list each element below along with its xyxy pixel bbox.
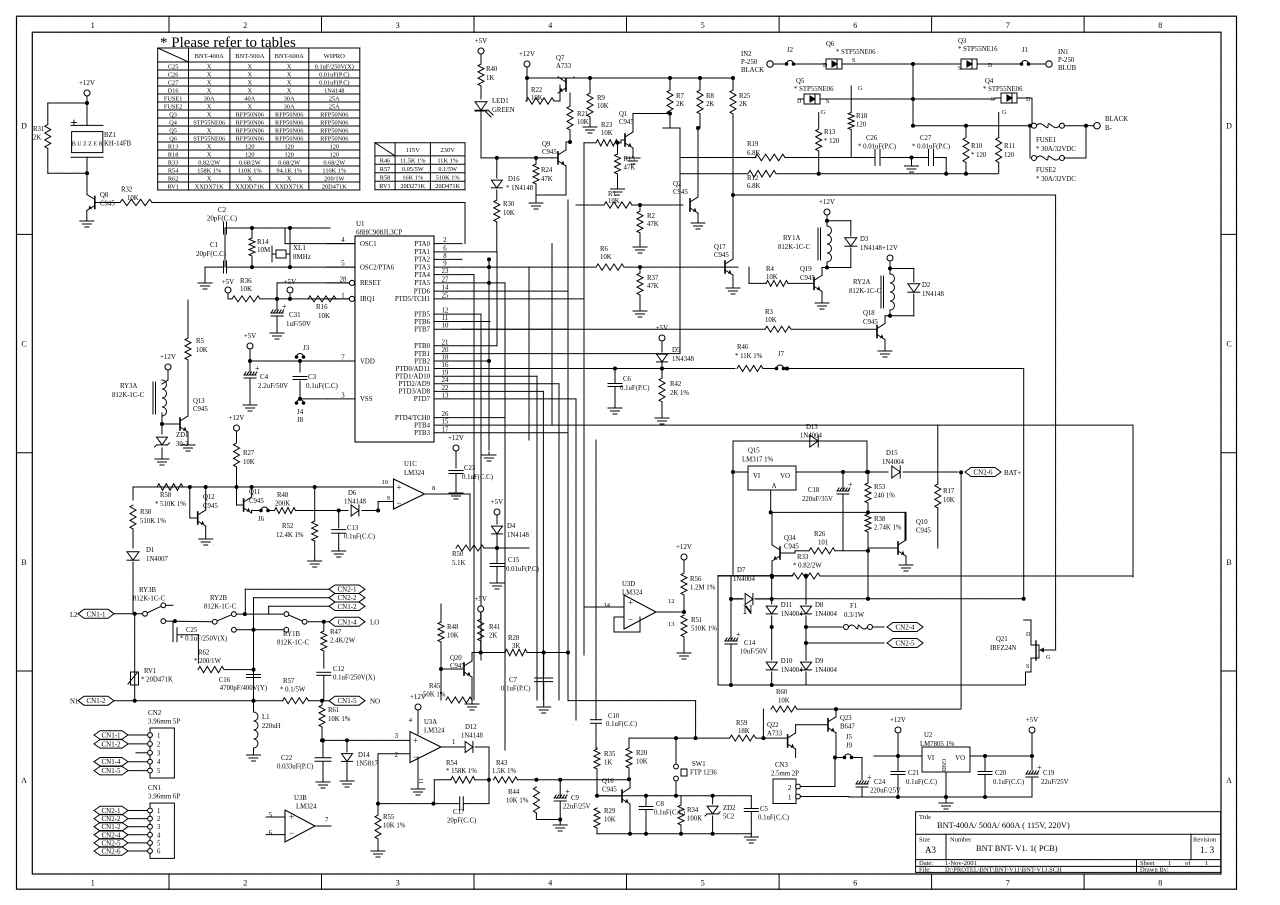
svg-text:C2: C2: [218, 206, 227, 214]
svg-text:22uF/25V: 22uF/25V: [1041, 779, 1069, 786]
svg-text:D10: D10: [781, 658, 793, 665]
svg-text:5.1K: 5.1K: [452, 560, 465, 567]
svg-text:120: 120: [1004, 152, 1015, 159]
svg-text:BNT-500A: BNT-500A: [235, 53, 265, 60]
svg-text:0.033uF(P.C): 0.033uF(P.C): [277, 764, 313, 771]
svg-text:LO: LO: [370, 619, 379, 627]
svg-text:C20: C20: [995, 770, 1007, 777]
svg-text:CN1-2: CN1-2: [101, 740, 121, 748]
svg-text:101: 101: [818, 540, 828, 547]
svg-text:PTB1: PTB1: [414, 351, 430, 358]
svg-text:R16: R16: [316, 303, 328, 311]
svg-text:10K: 10K: [636, 759, 648, 766]
svg-text:R13: R13: [824, 129, 836, 136]
svg-text:10: 10: [382, 479, 389, 486]
svg-text:U3B: U3B: [294, 795, 307, 802]
svg-text:R27: R27: [243, 450, 255, 457]
svg-text:PTD3/AD8: PTD3/AD8: [399, 389, 431, 396]
svg-text:R4: R4: [766, 266, 775, 273]
svg-text:1N4004: 1N4004: [733, 576, 756, 583]
svg-text:* 0.1uF/250V(X): * 0.1uF/250V(X): [180, 636, 227, 643]
svg-text:R55: R55: [383, 814, 395, 821]
svg-text:2: 2: [395, 752, 399, 759]
svg-text:24: 24: [442, 377, 449, 384]
svg-text:R33: R33: [797, 554, 809, 561]
svg-text:C5: C5: [760, 806, 769, 813]
svg-text:PTB0: PTB0: [414, 343, 430, 350]
svg-text:R19: R19: [747, 141, 759, 148]
svg-text:812K-1C-C: 812K-1C-C: [204, 604, 237, 611]
svg-text:C27: C27: [168, 79, 179, 86]
svg-text:J2: J2: [787, 47, 794, 54]
svg-text:1: 1: [91, 21, 95, 30]
svg-text:C21: C21: [908, 770, 919, 777]
svg-text:RFP50N06: RFP50N06: [236, 119, 264, 126]
svg-text:+12V: +12V: [882, 244, 898, 252]
svg-text:812K-1C-C: 812K-1C-C: [133, 596, 166, 603]
svg-text:5: 5: [269, 812, 273, 819]
svg-text:D: D: [21, 121, 27, 130]
svg-text:BLACK: BLACK: [1105, 116, 1128, 123]
svg-text:8: 8: [1158, 879, 1162, 888]
svg-text:19: 19: [442, 370, 449, 377]
svg-text:Q3: Q3: [169, 111, 177, 118]
svg-text:2K: 2K: [739, 101, 747, 108]
svg-text:+: +: [282, 302, 287, 311]
svg-text:18: 18: [442, 355, 449, 362]
svg-text:R14: R14: [257, 238, 269, 246]
svg-text:R8: R8: [706, 93, 715, 100]
svg-text:220uF/25V: 220uF/25V: [870, 788, 901, 795]
svg-text:4: 4: [548, 21, 552, 30]
svg-text:110K 1%: 110K 1%: [322, 167, 346, 174]
svg-text:R62: R62: [198, 650, 210, 657]
svg-text:−: −: [413, 752, 418, 762]
svg-text:94.1K 1%: 94.1K 1%: [276, 167, 302, 174]
svg-text:R61: R61: [328, 707, 339, 714]
svg-text:200/1W: 200/1W: [324, 175, 344, 182]
svg-text:2K: 2K: [706, 101, 714, 108]
svg-text:2.74K 1%: 2.74K 1%: [874, 525, 902, 532]
svg-text:X: X: [207, 151, 212, 158]
svg-text:1N4004: 1N4004: [781, 611, 804, 618]
svg-text:10K: 10K: [597, 103, 609, 110]
svg-text:200K: 200K: [275, 501, 290, 508]
svg-text:R42: R42: [670, 381, 682, 388]
svg-text:+12V: +12V: [160, 353, 176, 361]
svg-text:C6: C6: [623, 376, 632, 383]
svg-text:RV1: RV1: [144, 668, 156, 675]
svg-text:1N4348: 1N4348: [672, 356, 695, 363]
svg-text:A: A: [21, 776, 27, 785]
svg-text:RFP50N06: RFP50N06: [236, 135, 264, 142]
svg-text:D7: D7: [737, 567, 746, 574]
svg-text:GREEN: GREEN: [492, 107, 515, 114]
svg-text:1uF/50V: 1uF/50V: [286, 320, 311, 328]
svg-text:10K: 10K: [577, 119, 589, 126]
svg-text:9: 9: [387, 495, 390, 502]
svg-text:R53: R53: [874, 484, 886, 491]
svg-text:22: 22: [442, 385, 449, 392]
svg-text:CN2: CN2: [148, 709, 162, 717]
svg-text:X: X: [248, 103, 253, 110]
svg-text:0.1uF/250V(X): 0.1uF/250V(X): [333, 675, 375, 682]
svg-text:RFP50N06: RFP50N06: [275, 119, 303, 126]
svg-text:CN2-4: CN2-4: [101, 831, 121, 839]
svg-text:2K 1%: 2K 1%: [670, 390, 689, 397]
svg-text:D5: D5: [672, 347, 681, 354]
svg-text:File:: File:: [919, 867, 931, 874]
svg-text:X: X: [207, 71, 212, 78]
svg-text:PTB4: PTB4: [414, 422, 430, 429]
svg-text:Drawn By:: Drawn By:: [1140, 867, 1169, 874]
svg-text:1: 1: [1205, 860, 1208, 867]
svg-text:2K: 2K: [33, 135, 41, 142]
svg-text:A: A: [1226, 776, 1232, 785]
svg-text:120: 120: [330, 143, 339, 150]
svg-text:X: X: [207, 87, 212, 94]
svg-text:0.1/5W: 0.1/5W: [438, 166, 457, 173]
svg-text:4: 4: [157, 759, 161, 766]
svg-text:RY2A: RY2A: [853, 279, 870, 286]
svg-text:BNT-600A: BNT-600A: [274, 53, 304, 60]
svg-text:PTD5/TCH1: PTD5/TCH1: [395, 296, 430, 303]
svg-text:RFP50N06: RFP50N06: [320, 135, 348, 142]
svg-text:FUSE1: FUSE1: [164, 95, 183, 102]
svg-text:N: N: [743, 602, 753, 617]
svg-text:−: −: [628, 615, 633, 625]
svg-text:−: −: [289, 828, 294, 838]
svg-text:15: 15: [442, 419, 449, 426]
svg-text:VI: VI: [753, 473, 761, 480]
svg-text:+5V: +5V: [222, 278, 235, 286]
svg-text:J1: J1: [1022, 47, 1028, 54]
svg-text:1: 1: [91, 879, 95, 888]
svg-text:R45: R45: [429, 683, 441, 690]
svg-text:* 510K 1%: * 510K 1%: [155, 501, 186, 508]
svg-text:D6: D6: [348, 490, 357, 497]
svg-text:812K-1C-C: 812K-1C-C: [778, 244, 811, 251]
svg-text:C945: C945: [100, 201, 115, 208]
svg-text:RV1: RV1: [167, 183, 178, 190]
svg-text:SW1: SW1: [692, 761, 706, 768]
svg-text:26: 26: [442, 411, 449, 418]
svg-text:18K: 18K: [738, 728, 750, 735]
svg-text:RFP50N06: RFP50N06: [236, 111, 264, 118]
svg-text:R62: R62: [168, 175, 179, 182]
svg-text:L1: L1: [262, 714, 270, 721]
svg-text:R38: R38: [874, 516, 886, 523]
svg-text:R12: R12: [747, 175, 759, 182]
svg-text:VI: VI: [927, 755, 935, 762]
svg-text:C: C: [21, 340, 26, 349]
svg-text:D11: D11: [781, 602, 792, 609]
svg-text:Q4: Q4: [985, 78, 994, 85]
svg-text:Q10: Q10: [916, 519, 928, 526]
svg-text:C7: C7: [509, 677, 518, 684]
svg-text:RFP50N06: RFP50N06: [236, 127, 264, 134]
svg-text:+5V: +5V: [491, 498, 504, 506]
svg-text:D12: D12: [465, 724, 477, 731]
svg-text:S: S: [958, 66, 961, 72]
svg-text:230V: 230V: [440, 147, 455, 154]
svg-text:STP55NE06: STP55NE06: [193, 135, 225, 142]
svg-text:R32: R32: [121, 187, 133, 194]
svg-text:6.8K: 6.8K: [747, 183, 760, 190]
svg-text:A733: A733: [556, 63, 572, 70]
svg-text:IRFZ24N: IRFZ24N: [990, 645, 1017, 652]
svg-text:Q7: Q7: [556, 55, 565, 62]
svg-text:812K-1C-C: 812K-1C-C: [112, 392, 145, 399]
svg-text:D: D: [1026, 632, 1031, 638]
svg-text:R31: R31: [33, 126, 44, 133]
svg-text:PTD7: PTD7: [414, 396, 431, 403]
svg-text:1: 1: [788, 795, 791, 802]
svg-text:0.1uF(C.C): 0.1uF(C.C): [344, 534, 375, 541]
svg-text:G: G: [858, 85, 863, 92]
svg-text:Q8: Q8: [100, 192, 109, 199]
svg-text:30-3: 30-3: [176, 441, 189, 448]
svg-text:N1: N1: [70, 699, 78, 706]
svg-text:C31: C31: [289, 311, 301, 319]
svg-text:510K 1%: 510K 1%: [140, 518, 166, 525]
svg-text:Q18: Q18: [863, 310, 875, 317]
svg-text:C9: C9: [571, 795, 580, 802]
svg-text:1: 1: [157, 733, 160, 740]
svg-text:C945: C945: [193, 406, 208, 413]
svg-text:C25: C25: [186, 627, 198, 634]
svg-text:7: 7: [325, 817, 329, 824]
svg-text:RESET: RESET: [360, 280, 382, 287]
svg-text:0.68/2W: 0.68/2W: [323, 159, 345, 166]
svg-text:25: 25: [442, 292, 449, 299]
svg-text:R57: R57: [380, 166, 391, 173]
svg-text:9: 9: [443, 261, 447, 268]
svg-text:+: +: [70, 115, 77, 130]
svg-text:IRQ1: IRQ1: [360, 296, 375, 303]
svg-text:R50: R50: [452, 551, 464, 558]
svg-text:J7: J7: [778, 351, 785, 358]
svg-text:10K 1%: 10K 1%: [506, 798, 529, 805]
svg-text:1N4004: 1N4004: [815, 667, 838, 674]
svg-text:* STP55NE06: * STP55NE06: [836, 49, 876, 56]
svg-text:U1C: U1C: [404, 461, 417, 468]
svg-text:* Please refer to tables: * Please refer to tables: [160, 35, 296, 51]
svg-text:J3: J3: [303, 344, 310, 352]
svg-text:1. 3: 1. 3: [1200, 846, 1215, 856]
svg-text:PTD0/AD11: PTD0/AD11: [396, 366, 431, 373]
svg-text:CN1-1: CN1-1: [101, 732, 121, 740]
svg-text:CN1-2: CN1-2: [86, 697, 106, 705]
svg-text:Q5: Q5: [169, 127, 177, 134]
svg-text:+5V: +5V: [244, 332, 257, 340]
svg-text:P-250: P-250: [1058, 57, 1075, 64]
svg-text:10K: 10K: [600, 254, 612, 261]
svg-text:0.01uF(P.C): 0.01uF(P.C): [506, 566, 539, 573]
svg-text:Size: Size: [919, 837, 930, 844]
svg-text:XXDX71K: XXDX71K: [195, 183, 224, 190]
svg-text:FUSE1: FUSE1: [1036, 137, 1056, 144]
svg-text:X: X: [248, 63, 253, 70]
svg-text:NO: NO: [370, 698, 380, 706]
svg-text:J9: J9: [846, 743, 853, 750]
svg-text:X: X: [287, 71, 292, 78]
svg-text:PTA5: PTA5: [414, 280, 430, 287]
svg-text:C18: C18: [808, 487, 820, 494]
svg-text:C945: C945: [863, 319, 878, 326]
svg-text:5: 5: [157, 840, 161, 847]
svg-text:6: 6: [157, 849, 161, 856]
svg-text:X: X: [207, 127, 212, 134]
svg-text:3: 3: [341, 392, 345, 399]
svg-text:Q19: Q19: [800, 266, 812, 273]
svg-text:3: 3: [396, 21, 400, 30]
svg-text:R1: R1: [608, 191, 616, 198]
svg-text:C8: C8: [656, 801, 665, 808]
svg-text:12: 12: [668, 598, 675, 605]
svg-text:68HC908JL3CP: 68HC908JL3CP: [356, 229, 402, 237]
svg-text:5: 5: [701, 879, 705, 888]
svg-text:PTA0: PTA0: [414, 241, 430, 248]
svg-text:X: X: [287, 63, 292, 70]
svg-text:1N4004: 1N4004: [781, 667, 804, 674]
svg-text:R36: R36: [240, 277, 252, 285]
svg-text:Q16: Q16: [602, 778, 614, 785]
svg-text:1N4148: 1N4148: [344, 499, 367, 506]
svg-text:1N4004: 1N4004: [800, 433, 823, 440]
svg-text:* 0.82/2W: * 0.82/2W: [793, 563, 822, 570]
svg-text:X: X: [207, 79, 212, 86]
svg-text:R46: R46: [380, 158, 391, 165]
svg-text:C24: C24: [874, 779, 886, 786]
svg-text:B: B: [21, 558, 26, 567]
svg-text:D4: D4: [507, 523, 516, 530]
svg-text:17: 17: [442, 426, 449, 433]
svg-text:0.82/2W: 0.82/2W: [198, 159, 220, 166]
svg-text:16K 1%: 16K 1%: [402, 174, 424, 181]
svg-text:+: +: [628, 598, 633, 608]
svg-text:P-250: P-250: [741, 59, 758, 66]
svg-text:7: 7: [1006, 21, 1010, 30]
svg-text:10: 10: [442, 323, 449, 330]
svg-text:Q6: Q6: [826, 41, 835, 48]
svg-text:25A: 25A: [329, 95, 340, 102]
svg-text:12.4K 1%: 12.4K 1%: [276, 532, 304, 539]
svg-text:R9: R9: [597, 95, 606, 102]
svg-text:G: G: [1002, 109, 1007, 116]
svg-text:4: 4: [341, 237, 345, 244]
svg-text:510K 1%: 510K 1%: [436, 174, 461, 181]
svg-text:10K: 10K: [318, 312, 330, 320]
svg-text:11K 1%: 11K 1%: [437, 158, 458, 165]
svg-text:C4: C4: [260, 373, 269, 381]
svg-text:FTP 1236: FTP 1236: [690, 770, 717, 777]
svg-text:U2: U2: [924, 732, 933, 739]
svg-text:R30: R30: [503, 201, 515, 208]
svg-text:* 200/1W: * 200/1W: [194, 658, 222, 665]
svg-text:RFP50N06: RFP50N06: [275, 127, 303, 134]
svg-text:OSC1: OSC1: [360, 241, 377, 248]
svg-text:13: 13: [442, 392, 449, 399]
svg-text:10K: 10K: [604, 817, 616, 824]
svg-text:C23: C23: [464, 465, 476, 472]
svg-text:CN2-6: CN2-6: [101, 848, 121, 856]
svg-text:X: X: [248, 71, 253, 78]
svg-text:* 120: * 120: [824, 138, 840, 145]
svg-text:RV1: RV1: [379, 183, 390, 190]
svg-text:Q17: Q17: [714, 244, 726, 251]
svg-text:CN2-1: CN2-1: [337, 586, 357, 594]
svg-text:C26: C26: [168, 71, 179, 78]
svg-text:0.1uF(P.C): 0.1uF(P.C): [501, 686, 530, 693]
svg-text:10K: 10K: [243, 459, 255, 466]
svg-text:CN1-2: CN1-2: [337, 603, 357, 611]
svg-text:20D471K: 20D471K: [435, 183, 460, 190]
svg-text:C945: C945: [800, 275, 815, 282]
svg-text:1N4148: 1N4148: [922, 291, 945, 298]
svg-text:+5V: +5V: [656, 324, 669, 332]
svg-text:C15: C15: [508, 557, 520, 564]
svg-text:D14: D14: [358, 752, 370, 759]
svg-text:120: 120: [245, 143, 254, 150]
svg-text:BZ1: BZ1: [104, 132, 116, 139]
svg-text:5C2: 5C2: [723, 814, 735, 821]
svg-text:7: 7: [341, 355, 345, 362]
svg-text:R40: R40: [486, 66, 498, 73]
svg-text:PTB7: PTB7: [414, 327, 430, 334]
svg-text:158K 1%: 158K 1%: [197, 167, 222, 174]
svg-text:8MHz: 8MHz: [293, 253, 311, 261]
svg-text:R48: R48: [277, 492, 289, 499]
svg-text:CN2-5: CN2-5: [101, 839, 121, 847]
svg-text:0.1uF(C.C): 0.1uF(C.C): [758, 815, 789, 822]
svg-text:PTB5: PTB5: [414, 311, 430, 318]
svg-text:120: 120: [245, 151, 254, 158]
svg-text:XXDD71K: XXDD71K: [235, 183, 264, 190]
svg-text:14: 14: [604, 602, 611, 609]
svg-text:R56: R56: [690, 576, 702, 583]
svg-text:R51: R51: [691, 617, 702, 624]
svg-text:510K 1%: 510K 1%: [691, 626, 717, 633]
svg-text:47K: 47K: [647, 283, 659, 290]
svg-text:C945: C945: [602, 787, 617, 794]
svg-text:CN1-2: CN1-2: [101, 823, 121, 831]
svg-text:4700pF/400V(Y): 4700pF/400V(Y): [220, 685, 267, 692]
svg-text:−: −: [397, 498, 402, 508]
svg-text:812K-1C-C: 812K-1C-C: [277, 640, 310, 647]
svg-text:0.68/2W: 0.68/2W: [239, 159, 261, 166]
svg-text:14: 14: [442, 285, 449, 292]
svg-text:BAT+: BAT+: [1004, 469, 1021, 477]
svg-text:B: B: [1226, 558, 1231, 567]
svg-text:5: 5: [157, 768, 161, 775]
svg-text:* 0.01uF(P.C): * 0.01uF(P.C): [858, 144, 896, 151]
svg-text:C945: C945: [542, 149, 557, 156]
svg-text:R28: R28: [508, 635, 520, 642]
svg-text:21: 21: [442, 339, 449, 346]
svg-text:+: +: [255, 364, 260, 373]
svg-text:+12V: +12V: [676, 543, 692, 551]
svg-text:BLACK: BLACK: [741, 67, 764, 74]
svg-text:R22: R22: [531, 87, 543, 94]
svg-text:WIPRO: WIPRO: [324, 53, 345, 60]
svg-text:R54: R54: [168, 167, 179, 174]
svg-text:CN1-4: CN1-4: [101, 758, 121, 766]
svg-text:LM324: LM324: [296, 804, 317, 811]
svg-text:1N4148: 1N4148: [324, 87, 344, 94]
svg-text:R23: R23: [601, 122, 613, 129]
svg-text:S: S: [991, 97, 994, 103]
